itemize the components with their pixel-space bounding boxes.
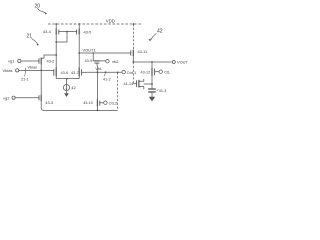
net label VbL bbox=[95, 67, 102, 71]
capacitor 41-3 bbox=[151, 84, 153, 89]
junction dot VDD/43-4 bbox=[55, 23, 57, 25]
svg-text:43-6: 43-6 bbox=[61, 70, 69, 75]
svg-text:21: 21 bbox=[27, 34, 33, 40]
junction dot bottom bus bbox=[97, 110, 99, 112]
junction dot node (56,55) bbox=[55, 54, 57, 56]
junction dot Vbias/column bbox=[40, 70, 42, 72]
transistor 43-11 (2nd stage PMOS) bbox=[133, 24, 135, 50]
svg-text:43-12: 43-12 bbox=[141, 71, 151, 75]
svg-text:43-7: 43-7 bbox=[71, 70, 79, 75]
svg-text:43-10: 43-10 bbox=[83, 101, 93, 105]
svg-text:20: 20 bbox=[35, 4, 41, 10]
input vg1 terminal bbox=[8, 59, 15, 64]
transistor 43-10 (bottom middle, gate to CtL2) bbox=[96, 100, 98, 107]
current source 42 bbox=[63, 85, 69, 91]
svg-text:41-3: 41-3 bbox=[159, 89, 167, 93]
terminal CtL1 bbox=[122, 70, 125, 73]
dashed vertical column E bbox=[117, 72, 119, 110]
node VOUT1 bbox=[78, 52, 80, 54]
transistor 43-2 (input NMOS) bbox=[38, 58, 40, 63]
node link first stage drains bbox=[44, 55, 56, 58]
dashed vertical column F (below 43-11 drain) bbox=[132, 62, 134, 84]
gate junction dot bbox=[66, 31, 68, 33]
svg-text:VOUT2: VOUT2 bbox=[177, 60, 188, 65]
svg-text:vg1: vg1 bbox=[8, 59, 15, 64]
wire 43-4 drain to 43-6 drain bbox=[55, 55, 57, 67]
svg-text:43-5: 43-5 bbox=[84, 29, 92, 34]
svg-text:43-9: 43-9 bbox=[85, 58, 93, 63]
svg-text:VDD: VDD bbox=[106, 19, 115, 24]
transistor 43-9 (horizontal, to vb2 terminal) bbox=[93, 52, 94, 53]
label 41-2 leader bbox=[104, 73, 107, 76]
diode-connect jog wire bbox=[56, 32, 67, 42]
label 21 with leader arrow bbox=[27, 34, 33, 40]
junction dot VDD/43-11 bbox=[133, 23, 135, 25]
diff pair common source wire bbox=[56, 78, 79, 80]
svg-text:CtrL1: CtrL1 bbox=[127, 70, 138, 75]
source down to bottom bus bbox=[41, 101, 117, 110]
terminal vb2 bbox=[106, 60, 109, 63]
svg-text:43-3: 43-3 bbox=[45, 100, 53, 105]
svg-text:43-11: 43-11 bbox=[138, 49, 148, 54]
junction dot jog/drain bbox=[55, 41, 57, 43]
terminal VOUT2 bbox=[172, 61, 175, 64]
label 21-1 bbox=[21, 78, 29, 82]
svg-text:43-2: 43-2 bbox=[47, 59, 55, 64]
terminal CtL bbox=[159, 70, 162, 73]
junction dot VDD/43-5 bbox=[78, 23, 80, 25]
svg-text:42: 42 bbox=[157, 29, 163, 35]
wire VOUT1 to 43-11 gate bbox=[79, 52, 130, 54]
transistor 43-14 (gate from F column) bbox=[133, 83, 136, 85]
svg-text:Vbias: Vbias bbox=[3, 68, 13, 73]
net tick 21-1 bbox=[24, 68, 26, 74]
transistor 43-7 (diff pair right) bbox=[81, 69, 83, 75]
junction dot 41-2 bbox=[105, 71, 107, 73]
svg-text:41-14: 41-14 bbox=[124, 82, 134, 86]
wire VOUT1 down to 43-7 drain bbox=[78, 53, 80, 67]
input vg2 terminal bbox=[3, 96, 10, 101]
svg-text:vb2: vb2 bbox=[112, 59, 119, 64]
svg-text:VbL: VbL bbox=[95, 67, 102, 71]
svg-text:CtL2: CtL2 bbox=[109, 101, 118, 106]
junction dot (97.4,72.3) bbox=[97, 71, 99, 73]
ground below capacitor bbox=[151, 93, 153, 97]
junction dot (152,84) bbox=[151, 83, 153, 85]
transistor 43-6 (diff pair left) bbox=[53, 69, 55, 75]
svg-text:Vbias: Vbias bbox=[28, 66, 38, 70]
svg-text:21-1: 21-1 bbox=[21, 78, 29, 82]
svg-text:42: 42 bbox=[71, 85, 76, 90]
wire Vbias to 43-6 gate bbox=[19, 69, 54, 71]
transistor 43-12 (on VOUT2 column, gate to CtL) bbox=[151, 62, 153, 68]
Vbias terminal bbox=[3, 68, 13, 73]
svg-text:VOUT1: VOUT1 bbox=[83, 47, 97, 52]
svg-text:CtL: CtL bbox=[164, 70, 171, 75]
transistor 43-4 (PMOS left of mirror) bbox=[55, 24, 57, 29]
svg-text:43-4: 43-4 bbox=[43, 29, 52, 34]
transistor 43-3 (input NMOS bottom) bbox=[38, 95, 40, 100]
vertical 43-9 gate to 43-10 bbox=[96, 65, 98, 99]
ground arrow below current source bbox=[66, 91, 68, 94]
VDD rail (dashed) bbox=[48, 23, 142, 25]
node VOUT2 wire bbox=[132, 61, 134, 63]
svg-text:41-2: 41-2 bbox=[103, 78, 111, 82]
wire 43-7 gate to CtL terminal bbox=[87, 71, 122, 73]
transistor 43-5 (PMOS right of mirror) bbox=[78, 24, 80, 29]
svg-text:vg2: vg2 bbox=[3, 96, 10, 101]
label 20 with leader arrow bbox=[35, 4, 41, 10]
label 42 with leader arrow (top right) bbox=[157, 29, 163, 35]
